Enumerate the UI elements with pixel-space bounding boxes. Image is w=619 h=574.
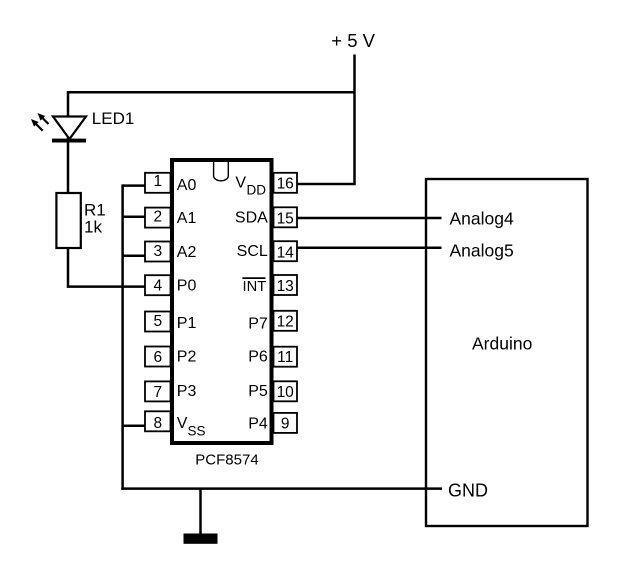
svg-text:P6: P6 (248, 349, 268, 366)
svg-text:SCL: SCL (237, 243, 268, 260)
svg-text:V: V (235, 174, 246, 191)
svg-text:7: 7 (153, 384, 162, 401)
svg-text:3: 3 (153, 243, 162, 260)
svg-text:P3: P3 (177, 383, 197, 400)
svg-text:13: 13 (277, 278, 294, 295)
svg-text:P5: P5 (248, 383, 268, 400)
svg-text:10: 10 (277, 384, 295, 401)
svg-text:P2: P2 (177, 348, 197, 365)
svg-text:A2: A2 (177, 244, 197, 261)
svg-text:P1: P1 (177, 315, 197, 332)
svg-text:Arduino: Arduino (472, 334, 532, 354)
svg-text:1: 1 (153, 173, 162, 190)
svg-text:INT: INT (243, 279, 267, 295)
svg-text:2: 2 (153, 208, 162, 225)
svg-text:4: 4 (153, 278, 162, 295)
svg-text:SDA: SDA (235, 210, 268, 227)
svg-text:12: 12 (277, 313, 294, 330)
svg-text:9: 9 (281, 415, 290, 432)
svg-text:16: 16 (277, 175, 294, 192)
svg-text:GND: GND (448, 481, 488, 501)
svg-text:11: 11 (277, 349, 293, 366)
svg-text:Analog5: Analog5 (450, 241, 514, 261)
svg-text:P0: P0 (177, 277, 197, 294)
svg-text:14: 14 (277, 245, 295, 262)
svg-text:PCF8574: PCF8574 (195, 452, 258, 469)
svg-text:A0: A0 (177, 177, 197, 194)
svg-text:1k: 1k (84, 218, 102, 237)
svg-text:Analog4: Analog4 (450, 209, 514, 229)
svg-text:LED1: LED1 (92, 109, 135, 128)
svg-text:6: 6 (153, 349, 162, 366)
svg-text:A1: A1 (177, 210, 197, 227)
svg-text:5: 5 (153, 313, 162, 330)
svg-text:DD: DD (247, 182, 267, 197)
svg-text:+ 5 V: + 5 V (331, 30, 375, 51)
svg-text:15: 15 (277, 211, 294, 228)
svg-text:P4: P4 (248, 415, 268, 432)
svg-text:P7: P7 (248, 315, 268, 332)
svg-text:8: 8 (153, 415, 162, 432)
